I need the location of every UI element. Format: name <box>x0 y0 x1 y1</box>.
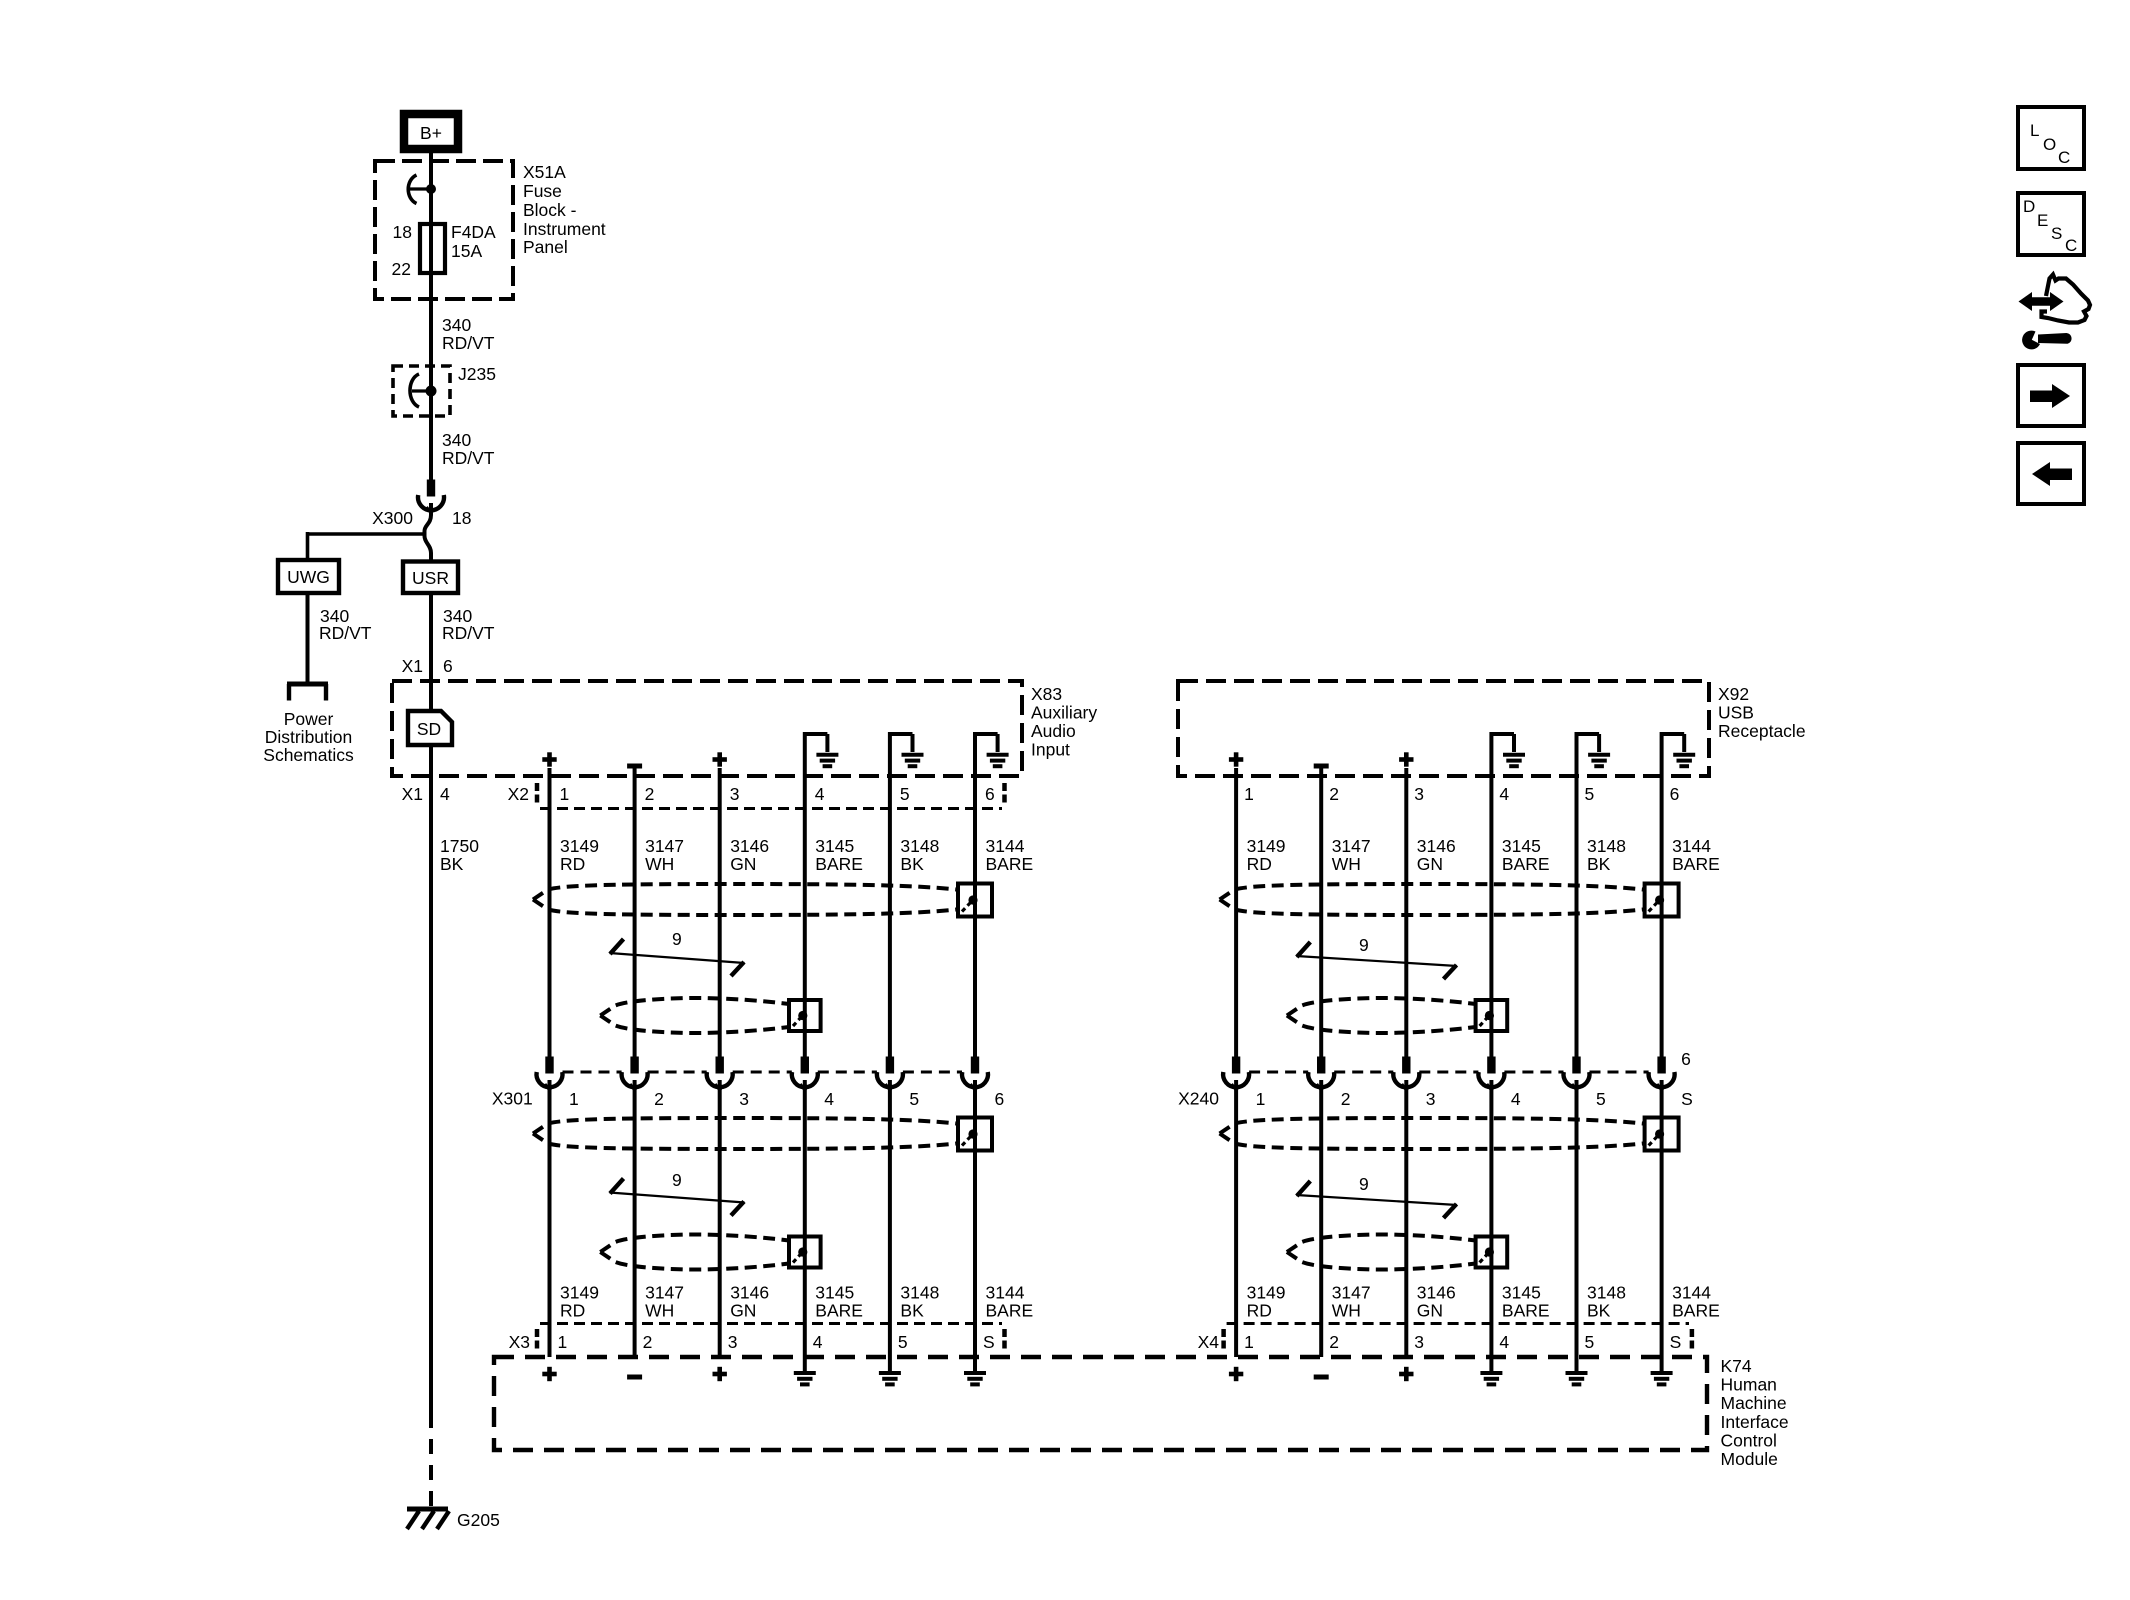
svg-text:3145: 3145 <box>815 836 854 856</box>
svg-text:WH: WH <box>1332 1301 1361 1321</box>
label X300 <box>372 508 413 528</box>
wire label 3147 WH lower (R) <box>1332 1283 1371 1321</box>
connector body X83 Auxiliary Audio Input dashed box <box>392 681 1022 776</box>
svg-text:6: 6 <box>1681 1049 1691 1069</box>
shield terminal box upper-inner on pin 4 (L) <box>789 1000 821 1031</box>
svg-text:L: L <box>2030 121 2039 140</box>
svg-text:GN: GN <box>730 1301 756 1321</box>
pin 1 number label below box (L) <box>560 784 570 804</box>
icon DESC button <box>2018 193 2084 255</box>
inner shield ellipse lower (L) <box>600 1235 794 1270</box>
svg-text:2: 2 <box>1329 784 1339 804</box>
pin 4 number label below box (R) <box>1499 784 1509 804</box>
svg-text:3147: 3147 <box>645 1283 684 1303</box>
svg-text:J235: J235 <box>458 364 496 384</box>
component UWG <box>278 560 339 593</box>
svg-text:RD: RD <box>1247 1301 1272 1321</box>
in-line connector X240 row dash <box>1249 1071 1649 1074</box>
ground symbol in box at pin 6 (R) <box>1660 734 1696 766</box>
svg-text:X300: X300 <box>372 508 413 528</box>
svg-text:3144: 3144 <box>986 1283 1025 1303</box>
svg-text:S: S <box>983 1332 995 1352</box>
svg-text:3: 3 <box>1414 1332 1424 1352</box>
twisted pair marker 9 upper (L) <box>610 929 745 976</box>
svg-text:1: 1 <box>1244 1332 1254 1352</box>
svg-text:Receptacle: Receptacle <box>1718 721 1806 741</box>
wire label 3145 BARE upper (L) <box>815 836 863 874</box>
component USR <box>403 562 458 594</box>
wire 3147 WH upper segment pin 2 (L) <box>633 768 637 1057</box>
svg-text:BARE: BARE <box>1502 1301 1550 1321</box>
wire 3145 BARE lower segment pin 4 (R) <box>1489 1080 1493 1371</box>
pin 6 number label below box (L) <box>985 784 995 804</box>
wire branch to UWG <box>308 532 427 561</box>
svg-text:5: 5 <box>1585 784 1595 804</box>
svg-text:2: 2 <box>654 1089 664 1109</box>
wire label 3147 WH upper (R) <box>1332 836 1371 874</box>
wire label 3146 GN upper (L) <box>730 836 769 874</box>
svg-text:Block -: Block - <box>523 200 577 220</box>
polarity - at pin 2 (L) <box>627 764 642 769</box>
twisted pair marker 9 lower (L) <box>610 1170 745 1216</box>
label J235 <box>458 364 496 384</box>
svg-text:Module: Module <box>1721 1449 1778 1469</box>
connector X301 terminal pin 6 <box>962 1057 988 1091</box>
pin 5 number label below box (L) <box>900 784 910 804</box>
svg-text:SD: SD <box>417 719 441 739</box>
svg-text:BARE: BARE <box>1502 854 1550 874</box>
svg-text:3: 3 <box>1414 784 1424 804</box>
svg-text:3149: 3149 <box>1247 836 1286 856</box>
X3 pin S label <box>983 1332 995 1352</box>
inner shield ellipse upper (R) <box>1287 998 1481 1033</box>
off-page connector to Power Distribution Schematics <box>287 684 328 701</box>
svg-text:E: E <box>2037 211 2048 230</box>
shield terminal box lower-inner on pin 4 (R) <box>1476 1237 1508 1268</box>
svg-text:G205: G205 <box>457 1510 500 1530</box>
pin 3 number label below box (R) <box>1414 784 1424 804</box>
X3 pin 3 label <box>728 1332 738 1352</box>
svg-text:1: 1 <box>1244 784 1254 804</box>
label pin 18 at X300 <box>452 508 471 528</box>
wire 3145 BARE upper segment pin 4 (L) <box>803 736 807 1057</box>
svg-text:Control: Control <box>1721 1430 1777 1450</box>
svg-text:3144: 3144 <box>1672 1283 1711 1303</box>
wire 3149 RD lower segment pin 1 (R) <box>1234 1080 1238 1357</box>
ground symbol in box at pin 4 (L) <box>803 734 839 766</box>
svg-text:2: 2 <box>1341 1089 1351 1109</box>
svg-text:4: 4 <box>813 1332 823 1352</box>
X3 pin 5 label <box>898 1332 908 1352</box>
svg-text:WH: WH <box>645 1301 674 1321</box>
svg-text:15A: 15A <box>451 241 482 261</box>
svg-text:2: 2 <box>1329 1332 1339 1352</box>
svg-text:RD/VT: RD/VT <box>442 623 495 643</box>
svg-text:USB: USB <box>1718 703 1754 723</box>
wire label 3144 BARE lower (L) <box>986 1283 1034 1321</box>
label K74 Human Machine Interface Control Module <box>1721 1356 1789 1469</box>
svg-text:Auxiliary: Auxiliary <box>1031 703 1097 723</box>
svg-text:3146: 3146 <box>730 836 769 856</box>
label X92 USB Receptacle <box>1718 684 1806 741</box>
wire label 3145 BARE upper (R) <box>1502 836 1550 874</box>
svg-text:BK: BK <box>1587 854 1611 874</box>
X4 pin 4 label <box>1499 1332 1509 1352</box>
power symbol B+ <box>404 114 458 149</box>
bus bar clip in fuse block <box>408 175 436 204</box>
shield terminal box upper-inner on pin 4 (R) <box>1476 1000 1508 1031</box>
wire 3145 BARE lower segment pin 4 (L) <box>803 1080 807 1371</box>
X301 pin 2 label <box>654 1089 664 1109</box>
label F4DA 15A <box>451 222 496 261</box>
connector X300 pin 18 <box>418 480 444 514</box>
svg-text:1750: 1750 <box>440 836 479 856</box>
svg-text:X1: X1 <box>402 656 423 676</box>
svg-text:BK: BK <box>1587 1301 1611 1321</box>
svg-text:6: 6 <box>985 784 995 804</box>
svg-text:1: 1 <box>1256 1089 1266 1109</box>
svg-text:9: 9 <box>672 929 682 949</box>
wire label 3147 WH upper (L) <box>645 836 684 874</box>
svg-text:X4: X4 <box>1198 1332 1220 1352</box>
svg-text:UWG: UWG <box>287 567 330 587</box>
wire label 3148 BK upper (L) <box>900 836 939 874</box>
X301 pin 6 label <box>995 1089 1005 1109</box>
wire 1750 BK <box>431 745 479 1506</box>
svg-text:4: 4 <box>824 1089 834 1109</box>
connector X301 terminal pin 5 <box>877 1057 903 1091</box>
shield terminal box lower on pin 6 (R) <box>1645 1118 1679 1151</box>
svg-text:RD/VT: RD/VT <box>442 333 495 353</box>
svg-text:C: C <box>2058 148 2070 167</box>
pin 2 number label below box (L) <box>645 784 655 804</box>
shield drain ellipse lower (R) <box>1220 1118 1648 1149</box>
svg-text:9: 9 <box>672 1170 682 1190</box>
wire 3144 BARE upper segment pin 6 (L) <box>973 736 977 1057</box>
polarity + at pin 3 (R) <box>1399 752 1413 766</box>
X240 pin 4 label <box>1511 1089 1521 1109</box>
svg-text:WH: WH <box>1332 854 1361 874</box>
svg-text:RD/VT: RD/VT <box>442 448 495 468</box>
X301 pin 3 label <box>739 1089 749 1109</box>
svg-text:RD: RD <box>1247 854 1272 874</box>
wire label 3148 BK upper (R) <box>1587 836 1626 874</box>
shield terminal box lower on pin 6 (L) <box>958 1118 992 1151</box>
wire label 3145 BARE lower (L) <box>815 1283 863 1321</box>
shield terminal box upper on pin 6 (L) <box>958 884 992 917</box>
twisted pair marker 9 upper (R) <box>1296 935 1457 979</box>
fuse F4DA 15A <box>420 224 445 273</box>
X301 pin 1 label <box>569 1089 579 1109</box>
wire label 3145 BARE lower (R) <box>1502 1283 1550 1321</box>
svg-text:3147: 3147 <box>1332 836 1371 856</box>
wire label 3149 RD upper (R) <box>1247 836 1286 874</box>
polarity + in K74 at pin 3 (L) <box>713 1367 727 1381</box>
connector body X92 USB Receptacle dashed box <box>1178 681 1709 776</box>
svg-text:X301: X301 <box>492 1089 533 1109</box>
polarity - in K74 at pin 2 (R) <box>1314 1375 1329 1380</box>
svg-text:3: 3 <box>730 784 740 804</box>
svg-text:BARE: BARE <box>815 1301 863 1321</box>
connector X240 terminal pin 6 <box>1649 1057 1675 1091</box>
wire 340 RD/VT fuse to J235 <box>442 315 495 353</box>
svg-text:GN: GN <box>1417 1301 1443 1321</box>
svg-text:S: S <box>1670 1332 1682 1352</box>
module K74 dashed box <box>494 1357 1707 1450</box>
wire 3148 BK upper segment pin 5 (R) <box>1575 736 1579 1057</box>
svg-text:Machine: Machine <box>1721 1393 1787 1413</box>
wire X300 to USR with jog <box>425 503 432 562</box>
wire 3144 BARE upper segment pin 6 (R) <box>1660 736 1664 1057</box>
wire label 3149 RD lower (L) <box>560 1283 599 1321</box>
label X1 pin 6 <box>402 656 453 676</box>
svg-text:X92: X92 <box>1718 684 1749 704</box>
svg-text:3145: 3145 <box>1502 836 1541 856</box>
wire 3149 RD upper segment pin 1 (R) <box>1234 768 1238 1057</box>
svg-text:5: 5 <box>898 1332 908 1352</box>
wire label 3149 RD upper (L) <box>560 836 599 874</box>
svg-text:C: C <box>2065 236 2077 255</box>
svg-text:BK: BK <box>900 854 924 874</box>
ground symbol in box at pin 5 (R) <box>1575 734 1611 766</box>
label X240 <box>1178 1089 1219 1109</box>
svg-text:3144: 3144 <box>1672 836 1711 856</box>
connector X301 terminal pin 2 <box>622 1057 648 1091</box>
wire 3146 GN lower segment pin 3 (R) <box>1404 1080 1408 1357</box>
svg-text:22: 22 <box>392 259 411 279</box>
connector strip X4 <box>1224 1324 1692 1353</box>
svg-text:Fuse: Fuse <box>523 181 562 201</box>
pin 4 number label below box (L) <box>815 784 825 804</box>
svg-text:3: 3 <box>739 1089 749 1109</box>
wire 3147 WH lower segment pin 2 (R) <box>1319 1080 1323 1357</box>
connector X301 terminal pin 1 <box>537 1057 563 1091</box>
ground symbol in box at pin 6 (L) <box>973 734 1009 766</box>
wire 3146 GN upper segment pin 3 (L) <box>718 768 722 1057</box>
pin 3 number label below box (L) <box>730 784 740 804</box>
svg-text:9: 9 <box>1359 935 1369 955</box>
shield drain ellipse lower (L) <box>533 1118 961 1149</box>
pin 2 number label below box (R) <box>1329 784 1339 804</box>
svg-text:4: 4 <box>1511 1089 1521 1109</box>
connector strip X3 <box>537 1324 1005 1353</box>
svg-text:4: 4 <box>440 784 450 804</box>
svg-text:X2: X2 <box>508 784 529 804</box>
wire 3146 GN upper segment pin 3 (R) <box>1404 768 1408 1057</box>
svg-text:3147: 3147 <box>1332 1283 1371 1303</box>
svg-text:4: 4 <box>1499 1332 1509 1352</box>
connector X240 terminal pin 4 <box>1478 1057 1504 1091</box>
ground symbol in K74 at pin 6 (L) <box>964 1373 986 1384</box>
label X51A Fuse Block - Instrument Panel <box>523 162 606 257</box>
svg-text:3147: 3147 <box>645 836 684 856</box>
wire from B+ through fuse block <box>429 153 433 481</box>
svg-text:3145: 3145 <box>815 1283 854 1303</box>
svg-text:1: 1 <box>558 1332 568 1352</box>
svg-text:6: 6 <box>1670 784 1680 804</box>
ground G205 <box>407 1509 449 1529</box>
icon back arrow button <box>2018 443 2084 504</box>
svg-text:2: 2 <box>643 1332 653 1352</box>
wire 3149 RD lower segment pin 1 (L) <box>548 1080 552 1357</box>
wire 3144 BARE lower segment pin 6 (L) <box>973 1080 977 1371</box>
svg-text:6: 6 <box>443 656 453 676</box>
X4 pin 1 label <box>1244 1332 1254 1352</box>
label X3 <box>509 1332 530 1352</box>
connector X240 terminal pin 2 <box>1308 1057 1334 1091</box>
X301 pin 4 label <box>824 1089 834 1109</box>
svg-text:18: 18 <box>452 508 471 528</box>
svg-text:X83: X83 <box>1031 684 1062 704</box>
wire label 3146 GN lower (L) <box>730 1283 769 1321</box>
svg-text:Interface: Interface <box>1721 1412 1789 1432</box>
wire label 3144 BARE upper (L) <box>986 836 1034 874</box>
svg-text:5: 5 <box>909 1089 919 1109</box>
svg-text:6: 6 <box>995 1089 1005 1109</box>
svg-text:WH: WH <box>645 854 674 874</box>
icon next arrow button <box>2018 365 2084 426</box>
svg-text:BARE: BARE <box>986 854 1034 874</box>
svg-text:BARE: BARE <box>1672 854 1720 874</box>
label X1 pin 4 <box>402 784 450 804</box>
X4 pin 2 label <box>1329 1332 1339 1352</box>
svg-text:Audio: Audio <box>1031 721 1076 741</box>
polarity + in K74 at pin 1 (R) <box>1229 1367 1243 1381</box>
connector X301 terminal pin 3 <box>707 1057 733 1091</box>
in-line connector X301 row dash <box>563 1071 963 1074</box>
svg-text:5: 5 <box>1596 1089 1606 1109</box>
wire 3144 BARE lower segment pin 6 (R) <box>1660 1080 1664 1371</box>
svg-text:BK: BK <box>440 854 464 874</box>
svg-text:3: 3 <box>1426 1089 1436 1109</box>
pin 1 number label below box (R) <box>1244 784 1254 804</box>
ground symbol in K74 at pin 6 (R) <box>1651 1373 1673 1384</box>
svg-text:2: 2 <box>645 784 655 804</box>
svg-text:S: S <box>2051 224 2062 243</box>
connector X240 terminal pin 1 <box>1223 1057 1249 1091</box>
svg-text:BARE: BARE <box>986 1301 1034 1321</box>
svg-text:RD: RD <box>560 854 585 874</box>
svg-text:S: S <box>1681 1089 1693 1109</box>
ground symbol in K74 at pin 5 (R) <box>1566 1373 1588 1384</box>
svg-text:3146: 3146 <box>1417 836 1456 856</box>
svg-text:RD: RD <box>560 1301 585 1321</box>
inner shield ellipse lower (R) <box>1287 1235 1481 1270</box>
wire 3147 WH upper segment pin 2 (R) <box>1319 768 1323 1057</box>
X4 pin S label <box>1670 1332 1682 1352</box>
X240 pin S label <box>1681 1089 1693 1109</box>
polarity + in K74 at pin 3 (R) <box>1399 1367 1413 1381</box>
polarity - at pin 2 (R) <box>1314 764 1329 769</box>
svg-text:F4DA: F4DA <box>451 222 496 242</box>
ground symbol in K74 at pin 5 (L) <box>879 1373 901 1384</box>
X240 pin 1 label <box>1256 1089 1266 1109</box>
wire 3148 BK lower segment pin 5 (R) <box>1575 1080 1579 1371</box>
svg-text:Human: Human <box>1721 1375 1777 1395</box>
X4 pin 3 label <box>1414 1332 1424 1352</box>
wire 3147 WH lower segment pin 2 (L) <box>633 1080 637 1357</box>
icon vehicle service (arrow, car outline, wrench) <box>2019 275 2091 350</box>
label X83 Auxiliary Audio Input <box>1031 684 1097 760</box>
svg-text:3148: 3148 <box>1587 1283 1626 1303</box>
svg-text:3148: 3148 <box>900 1283 939 1303</box>
pin 6 number label below box (R) <box>1670 784 1680 804</box>
X301 pin 5 label <box>909 1089 919 1109</box>
connector X240 terminal pin 5 <box>1564 1057 1590 1091</box>
connector X240 terminal pin 3 <box>1393 1057 1419 1091</box>
X240 pin 3 label <box>1426 1089 1436 1109</box>
svg-text:3148: 3148 <box>1587 836 1626 856</box>
svg-text:3144: 3144 <box>986 836 1025 856</box>
svg-text:Distribution: Distribution <box>265 727 353 747</box>
wire 340 RD/VT below UWG <box>308 593 372 682</box>
svg-text:3149: 3149 <box>560 1283 599 1303</box>
pin 18 label <box>393 222 412 242</box>
svg-text:GN: GN <box>1417 854 1443 874</box>
wire 340 RD/VT below USR <box>431 593 495 711</box>
svg-text:X3: X3 <box>509 1332 530 1352</box>
ground symbol in box at pin 5 (L) <box>888 734 924 766</box>
wire 3148 BK lower segment pin 5 (L) <box>888 1080 892 1371</box>
polarity + at pin 1 (R) <box>1229 752 1243 766</box>
svg-text:GN: GN <box>730 854 756 874</box>
svg-text:B+: B+ <box>420 123 442 143</box>
wire label 3146 GN lower (R) <box>1417 1283 1456 1321</box>
label X4 <box>1198 1332 1220 1352</box>
wire 3146 GN lower segment pin 3 (L) <box>718 1080 722 1357</box>
shield drain ellipse upper (R) <box>1220 884 1648 915</box>
ground symbol in K74 at pin 4 (R) <box>1480 1373 1502 1384</box>
label X2 <box>508 784 529 804</box>
wire label 3148 BK lower (R) <box>1587 1283 1626 1321</box>
shield drain ellipse upper (L) <box>533 884 961 915</box>
X4 pin 5 label <box>1585 1332 1595 1352</box>
label G205 <box>457 1510 500 1530</box>
twisted pair marker 9 lower (R) <box>1296 1174 1457 1218</box>
svg-text:4: 4 <box>1499 784 1509 804</box>
wire 3149 RD upper segment pin 1 (L) <box>548 768 552 1057</box>
svg-text:3145: 3145 <box>1502 1283 1541 1303</box>
label X301 <box>492 1089 533 1109</box>
svg-text:Instrument: Instrument <box>523 219 606 239</box>
pin 5 number label below box (R) <box>1585 784 1595 804</box>
svg-text:RD/VT: RD/VT <box>319 623 372 643</box>
wire label 3144 BARE lower (R) <box>1672 1283 1720 1321</box>
connector strip X2 <box>537 783 1005 809</box>
svg-text:K74: K74 <box>1721 1356 1752 1376</box>
svg-text:3148: 3148 <box>900 836 939 856</box>
wire 340 RD/VT J235 to X300 <box>442 430 495 468</box>
wire label 3147 WH lower (L) <box>645 1283 684 1321</box>
svg-text:X51A: X51A <box>523 162 566 182</box>
polarity + at pin 3 (L) <box>713 752 727 766</box>
shield terminal box lower-inner on pin 4 (L) <box>789 1237 821 1268</box>
svg-text:X1: X1 <box>402 784 423 804</box>
svg-text:Power: Power <box>284 709 334 729</box>
pin 6 label above X240 S terminal <box>1681 1049 1691 1069</box>
ground symbol in K74 at pin 4 (L) <box>794 1373 816 1384</box>
X3 pin 4 label <box>813 1332 823 1352</box>
svg-text:Input: Input <box>1031 740 1070 760</box>
svg-text:Panel: Panel <box>523 237 568 257</box>
svg-text:D: D <box>2023 197 2035 216</box>
svg-text:1: 1 <box>569 1089 579 1109</box>
svg-text:340: 340 <box>442 315 471 335</box>
X240 pin 5 label <box>1596 1089 1606 1109</box>
pin 22 label <box>392 259 411 279</box>
wire label 3146 GN upper (R) <box>1417 836 1456 874</box>
wire label 3149 RD lower (R) <box>1247 1283 1286 1321</box>
